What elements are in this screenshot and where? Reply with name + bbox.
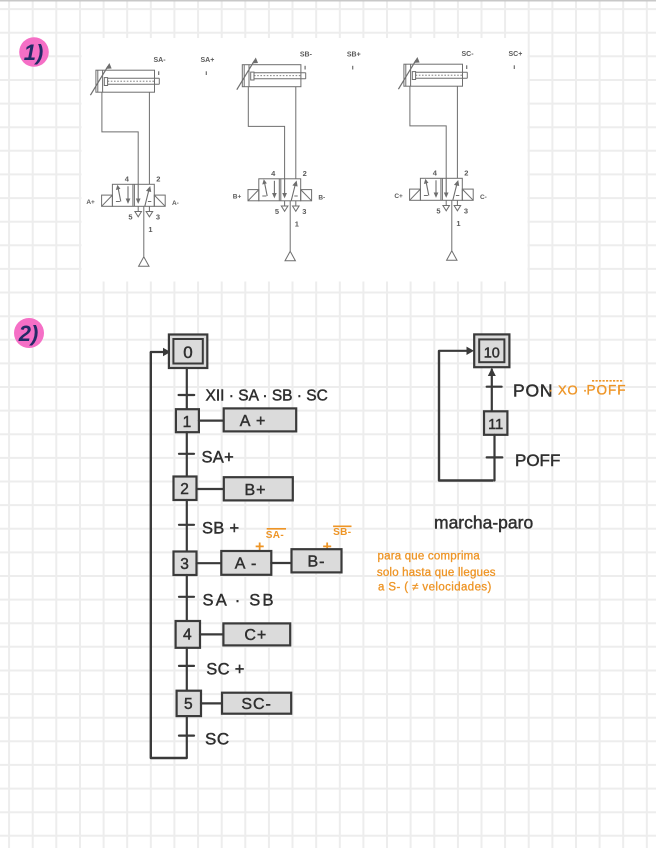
- exhaust port 5 silencer: [281, 201, 288, 212]
- svg-text:B+: B+: [233, 194, 242, 201]
- svg-text:SC-: SC-: [462, 51, 475, 58]
- svg-text:SB-: SB-: [300, 51, 313, 58]
- wire step 2 to step 3: [186, 500, 188, 552]
- action A+: [224, 408, 297, 431]
- cylinder C (double-acting, adjustable): [398, 58, 467, 89]
- orange annotation +SB- (overlined): [323, 526, 352, 555]
- step 10 (initial step): [474, 334, 509, 367]
- wire return loop main sequence: [151, 352, 187, 758]
- svg-text:A -: A -: [235, 556, 258, 573]
- limit switch label SC+: [509, 51, 523, 69]
- wire cylinder A rod-end to valve port 2: [148, 92, 150, 184]
- svg-text:SB+: SB+: [347, 51, 361, 58]
- svg-text:0: 0: [183, 343, 193, 362]
- svg-text:2: 2: [180, 481, 190, 498]
- 5/2 valve VB body: [259, 179, 301, 201]
- svg-text:1: 1: [295, 219, 299, 228]
- svg-text:5: 5: [184, 696, 194, 713]
- wire step 1 to step 2: [186, 432, 188, 476]
- svg-text:a S- ( ≠ velocidades): a S- ( ≠ velocidades): [378, 582, 492, 594]
- svg-text:2: 2: [156, 174, 160, 183]
- svg-text:· XO ·: · XO ·: [549, 383, 588, 398]
- step 4: [176, 621, 200, 648]
- limit switch label SA-: [154, 57, 167, 75]
- svg-text:marcha-paro: marcha-paro: [434, 513, 533, 533]
- wire cylinder B rod-end to valve port 2: [295, 87, 297, 179]
- wire cylinder C cap-end to valve port 4: [410, 86, 446, 178]
- action A-: [221, 551, 271, 575]
- step 11: [484, 411, 507, 435]
- wire cylinder B cap-end to valve port 4: [248, 87, 284, 179]
- wire port 1 to supply: [451, 200, 453, 250]
- pilot A+ (left): [86, 195, 112, 206]
- 5/2 valve VA body: [112, 184, 154, 206]
- svg-text:A +: A +: [240, 413, 267, 430]
- step 2: [174, 477, 197, 501]
- action SC-: [222, 693, 291, 714]
- svg-text:4: 4: [183, 627, 193, 644]
- svg-text:SA · SB: SA · SB: [203, 592, 276, 610]
- wire step 4 to step 5: [186, 648, 188, 691]
- svg-text:C-: C-: [480, 194, 487, 201]
- transition SA·SB: [179, 592, 276, 610]
- wire step 5 to loop bottom: [186, 716, 188, 758]
- wire cylinder C rod-end to valve port 2: [456, 86, 458, 178]
- wire step 11 down: [493, 435, 495, 481]
- step 5: [177, 691, 201, 716]
- pilot B- (right): [301, 190, 326, 202]
- limit switch label SB-: [300, 51, 313, 69]
- entry arrow into step 10: [439, 347, 474, 355]
- svg-text:1: 1: [148, 225, 152, 234]
- valve port number labels 4 2 5 3 1: [271, 169, 307, 229]
- svg-text:1: 1: [183, 414, 193, 431]
- svg-text:1): 1): [24, 40, 44, 65]
- step 3: [174, 552, 197, 576]
- svg-text:SA+: SA+: [202, 449, 235, 467]
- cylinder B (double-acting, adjustable): [237, 59, 306, 90]
- svg-text:3: 3: [464, 206, 468, 215]
- svg-text:A+: A+: [86, 199, 95, 206]
- transition SC+: [179, 661, 245, 679]
- pilot A- (right): [154, 195, 179, 207]
- svg-text:B-: B-: [308, 554, 326, 571]
- transition SA+: [179, 449, 234, 467]
- heading marker 2): [14, 318, 44, 348]
- pilot C+ (left): [394, 189, 420, 200]
- wire action A- to action B-: [271, 562, 291, 564]
- orange note: [377, 551, 496, 594]
- svg-text:SC-: SC-: [241, 696, 272, 713]
- limit switch label SC-: [462, 51, 475, 69]
- svg-text:B-: B-: [318, 194, 325, 201]
- svg-text:PON: PON: [513, 381, 553, 401]
- wire step 5 to action: [201, 702, 222, 704]
- pilot B+ (left): [233, 190, 259, 201]
- svg-text:para que comprima: para que comprima: [378, 551, 481, 563]
- pilot C- (right): [462, 189, 487, 201]
- exhaust port 3 silencer: [454, 200, 461, 211]
- wire step 3 to action: [197, 562, 222, 564]
- wire port 1 to supply: [143, 206, 145, 256]
- svg-text:POFF: POFF: [515, 451, 560, 470]
- svg-text:SC+: SC+: [509, 51, 523, 58]
- limit switch label SA+: [201, 57, 215, 75]
- action B-: [292, 549, 342, 572]
- wire return loop marcha-paro: [439, 351, 493, 481]
- wire step 0 to step 1: [186, 368, 188, 409]
- svg-text:10: 10: [484, 346, 500, 362]
- svg-text:SB-: SB-: [333, 527, 351, 538]
- svg-text:SC: SC: [205, 730, 230, 749]
- exhaust port 5 silencer: [443, 200, 450, 211]
- transition SC: [179, 730, 230, 749]
- exhaust port 3 silencer: [146, 206, 153, 217]
- valve port number labels 4 2 5 3 1: [125, 174, 161, 234]
- wire step 10 to step 11 with up arrow: [488, 368, 496, 411]
- exhaust port 5 silencer: [135, 206, 142, 217]
- exhaust port 3 silencer: [293, 201, 300, 212]
- compressed air supply source: [447, 251, 457, 260]
- compressed air supply source: [139, 257, 149, 266]
- svg-text:3: 3: [302, 207, 306, 216]
- wire cylinder A cap-end to valve port 4: [102, 92, 138, 184]
- svg-text:SA+: SA+: [201, 57, 215, 64]
- wire port 1 to supply: [289, 201, 291, 251]
- svg-text:5: 5: [128, 212, 132, 221]
- wire step 4 to action: [200, 633, 223, 635]
- svg-text:2): 2): [18, 321, 39, 346]
- svg-text:3: 3: [156, 212, 160, 221]
- action B+: [224, 477, 293, 500]
- compressed air supply source: [285, 251, 295, 260]
- transition PON·X0·POFF: [487, 381, 627, 401]
- svg-text:SB +: SB +: [202, 520, 239, 538]
- action C+: [223, 623, 290, 645]
- valve port number labels 4 2 5 3 1: [433, 168, 469, 228]
- svg-text:A-: A-: [172, 200, 179, 207]
- svg-text:solo hasta que llegues: solo hasta que llegues: [377, 567, 496, 579]
- svg-text:C+: C+: [394, 193, 403, 200]
- transition SB+: [179, 520, 239, 538]
- svg-text:2: 2: [464, 168, 468, 177]
- 5/2 valve VC body: [420, 178, 462, 200]
- wire step 3 to step 4: [186, 575, 188, 621]
- svg-text:POFF: POFF: [587, 383, 627, 398]
- step 0 (initial step): [169, 335, 207, 369]
- svg-text:3: 3: [180, 556, 190, 573]
- svg-text:B+: B+: [244, 482, 266, 499]
- svg-text:SA-: SA-: [154, 57, 167, 64]
- svg-text:5: 5: [436, 206, 440, 215]
- svg-text:SA-: SA-: [266, 530, 284, 541]
- svg-text:XII · SA · SB · SC: XII · SA · SB · SC: [206, 388, 328, 405]
- svg-text:11: 11: [488, 417, 503, 433]
- wire step 1 to action: [199, 420, 224, 422]
- orange annotation +SA- (overlined): [255, 529, 286, 556]
- heading marker 1): [19, 37, 49, 67]
- svg-text:SC +: SC +: [206, 661, 244, 679]
- transition POFF: [487, 451, 561, 470]
- svg-text:2: 2: [303, 169, 307, 178]
- entry arrow into step 0: [151, 348, 171, 356]
- transition XII·SA·SB·SC: [179, 388, 328, 405]
- svg-text:C+: C+: [244, 627, 267, 644]
- cylinder A (double-acting, adjustable): [90, 64, 159, 95]
- step 1: [176, 409, 199, 432]
- svg-text:1: 1: [456, 219, 460, 228]
- svg-text:5: 5: [275, 207, 279, 216]
- wire step 2 to action: [197, 488, 224, 490]
- limit switch label SB+: [347, 51, 361, 69]
